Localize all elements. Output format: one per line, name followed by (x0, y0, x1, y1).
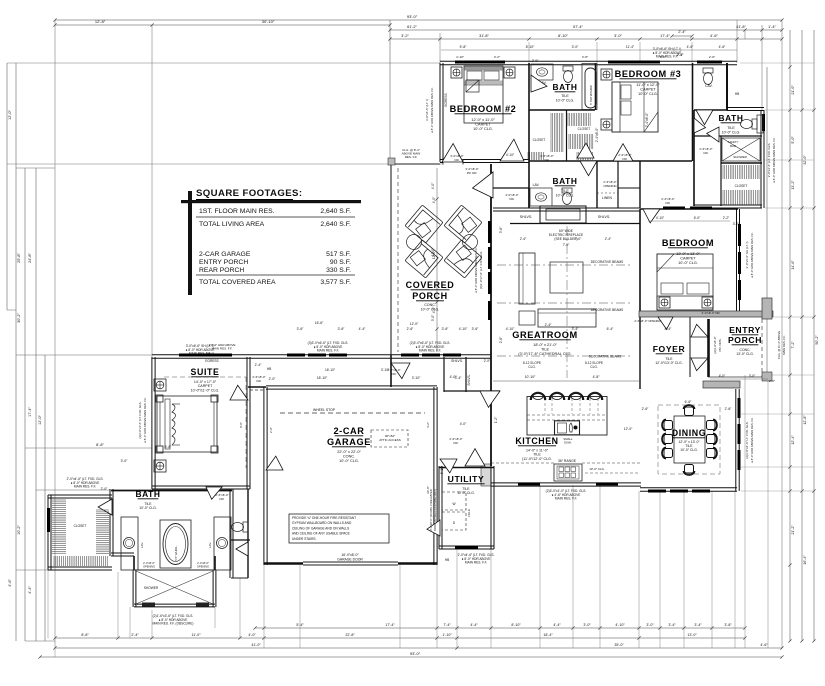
svg-text:30’-2″: 30’-2″ (17, 312, 21, 322)
door foyer double (691, 324, 708, 337)
kitchen south wall (491, 482, 641, 484)
svg-text:6’-4″: 6’-4″ (607, 327, 614, 331)
svg-text:330 S.F.: 330 S.F. (326, 267, 351, 274)
svg-text:CONC.: CONC. (343, 455, 355, 459)
svg-text:4’-0″: 4’-0″ (460, 422, 467, 426)
svg-text:13’-0″: 13’-0″ (687, 633, 697, 637)
right horizontal extensions (740, 62, 814, 64)
svg-text:FOLD: FOLD (467, 509, 471, 516)
door porch french (473, 172, 494, 198)
svg-text:1’-4″: 1’-4″ (768, 25, 776, 29)
svg-text:6’-0″: 6’-0″ (694, 216, 701, 220)
svg-text:EGRESS: EGRESS (444, 93, 448, 106)
svg-text:CLG. @ 11’-4″ ABOVE: CLG. @ 11’-4″ ABOVE (777, 331, 781, 359)
svg-text:2’-4″: 2’-4″ (605, 237, 612, 241)
svg-text:11’-4″: 11’-4″ (626, 45, 635, 49)
svg-text:6’-6″: 6’-6″ (685, 400, 692, 404)
svg-text:61’-2″: 61’-2″ (407, 25, 417, 29)
right bedroom speakers (659, 297, 670, 308)
svg-text:2’-6″: 2’-6″ (407, 327, 414, 331)
svg-text:MAIN RES. F.F.: MAIN RES. F.F. (419, 349, 441, 353)
door utility2 (427, 520, 440, 536)
utility washer dryer (442, 492, 466, 510)
svg-text:9’-0″: 9’-0″ (239, 422, 243, 428)
svg-text:10’-0″ CLG.: 10’-0″ CLG. (556, 193, 575, 197)
svg-text:2’-6″x8’-0″ OPENING: 2’-6″x8’-0″ OPENING (634, 319, 662, 323)
svg-text:36″ RANGE: 36″ RANGE (558, 459, 577, 463)
svg-text:50’-2″: 50’-2″ (815, 335, 819, 345)
bedroom wing exterior walls (440, 60, 737, 62)
svg-text:TOTAL LIVING AREA: TOTAL LIVING AREA (199, 221, 265, 228)
svg-text:90 S.F.: 90 S.F. (330, 259, 351, 266)
bath door top left (98, 499, 112, 515)
svg-text:12’-0″: 12’-0″ (410, 322, 419, 326)
svg-text:2’-4″x8’-0″: 2’-4″x8’-0″ (143, 561, 155, 565)
svg-text:HB: HB (735, 92, 739, 96)
bedroom east windows (738, 224, 741, 246)
svg-text:11’-0″: 11’-0″ (192, 633, 202, 637)
dimension frame bottom (255, 627, 745, 629)
svg-text:41’-8″: 41’-8″ (736, 25, 746, 29)
svg-text:10’-0″ CLG.: 10’-0″ CLG. (680, 448, 698, 452)
svg-text:4’-4″: 4’-4″ (28, 586, 32, 594)
svg-text:FOYER: FOYER (653, 344, 686, 354)
svg-text:GARAGE: GARAGE (327, 437, 371, 447)
svg-text:2’-2″: 2’-2″ (723, 216, 730, 220)
svg-text:MAIN RES. F.F.: MAIN RES. F.F. (74, 485, 96, 489)
right bath toilet (741, 119, 758, 129)
svg-text:10’-0″/11’-0″ CLG.: 10’-0″/11’-0″ CLG. (191, 388, 220, 392)
master closet walls (47, 495, 49, 570)
master bath tub (160, 520, 191, 568)
svg-text:4’-0″: 4’-0″ (719, 374, 726, 378)
wing closets hatch (551, 113, 563, 152)
svg-text:12’-0″: 12’-0″ (432, 250, 436, 259)
door rear hall (391, 363, 410, 379)
dining ceiling dash box (658, 405, 720, 474)
kitchen/greatroom west wall lower (490, 355, 492, 466)
door bath2 (580, 161, 597, 176)
kitchen island (527, 397, 607, 436)
svg-text:OPENING: OPENING (143, 565, 155, 569)
svg-text:17’-4″: 17’-4″ (660, 34, 670, 38)
svg-text:8’-8″: 8’-8″ (165, 445, 172, 449)
svg-text:3’-0″: 3’-0″ (583, 623, 591, 627)
shower bottom glass (142, 603, 155, 607)
svg-text:SHOWER: SHOWER (144, 586, 159, 590)
svg-text:UTILITY: UTILITY (448, 474, 485, 484)
svg-text:MAIN RES. F.F.: MAIN RES. F.F. (212, 347, 233, 351)
svg-text:11’-0″ x 12’-0″: 11’-0″ x 12’-0″ (636, 83, 660, 87)
svg-text:1ST. FLOOR MAIN RES.: 1ST. FLOOR MAIN RES. (199, 208, 275, 215)
entry walk dims (710, 378, 768, 380)
svg-text:3’-0″x6’-6″ (LT. I): 3’-0″x6’-6″ (LT. I) (425, 99, 429, 121)
svg-text:DECORATIVE BEAMS: DECORATIVE BEAMS (589, 355, 622, 359)
svg-text:DR.: DR. (392, 372, 397, 376)
svg-text:● 8’-0″ HDR ABOVE MAIN RES. F.: ● 8’-0″ HDR ABOVE MAIN RES. F.F. (750, 417, 754, 463)
svg-text:RES. F.F.: RES. F.F. (405, 155, 418, 159)
svg-text:3’-2″: 3’-2″ (494, 55, 501, 59)
door hall-bedroom (643, 209, 660, 223)
bedroom3 window (608, 61, 660, 64)
svg-text:MAIN RES. F.F.: MAIN RES. F.F. (555, 497, 577, 501)
svg-text:HB: HB (267, 367, 271, 371)
svg-text:10’-2″: 10’-2″ (17, 524, 21, 534)
bedroom window top (663, 207, 685, 210)
right bedroom bed (657, 254, 713, 310)
svg-text:SHOWER: SHOWER (733, 155, 747, 159)
svg-text:7’-2″: 7’-2″ (791, 341, 795, 349)
svg-text:4’-10″: 4’-10″ (615, 623, 625, 627)
porch edge lines (390, 164, 392, 355)
porch chairs (405, 205, 443, 243)
svg-text:30’-10″: 30’-10″ (262, 19, 275, 24)
svg-text:5’-0″: 5’-0″ (791, 136, 795, 144)
svg-text:DECORATIVE BEAMS: DECORATIVE BEAMS (591, 260, 624, 264)
svg-text:4’-4″: 4’-4″ (553, 623, 561, 627)
svg-text:AND CEILING OF ANY USABLE SPAC: AND CEILING OF ANY USABLE SPACE (292, 532, 350, 536)
svg-text:10’-10″: 10’-10″ (525, 375, 536, 379)
closet west window (47, 508, 50, 532)
door bedroom3 (613, 144, 633, 161)
svg-text:16’-10″: 16’-10″ (325, 368, 336, 372)
svg-text:LAV.: LAV. (208, 542, 212, 548)
svg-text:DR.: DR. (257, 379, 262, 383)
svg-text:DOOR W/ SELF-CLOSING UNIT): DOOR W/ SELF-CLOSING UNIT) (433, 489, 437, 531)
svg-text:3’-8″: 3’-8″ (582, 55, 589, 59)
extension lines top (54, 20, 56, 648)
svg-text:5’-4″: 5’-4″ (296, 623, 304, 627)
svg-text:WHEEL STOP: WHEEL STOP (313, 408, 336, 412)
svg-text:4’-6″: 4’-6″ (8, 579, 12, 587)
svg-text:● 8’-0″ HDR ABOVE MAIN RES. F.: ● 8’-0″ HDR ABOVE MAIN RES. F.F. (750, 232, 754, 278)
svg-text:MAIN RES. F.F.: MAIN RES. F.F. (782, 335, 786, 355)
svg-text:TILE: TILE (541, 348, 549, 352)
svg-text:10’-0″ CLG.: 10’-0″ CLG. (589, 467, 605, 471)
svg-text:31’-8″: 31’-8″ (479, 34, 489, 38)
svg-text:5’-8″: 5’-8″ (460, 45, 467, 49)
top bath toilet (563, 66, 573, 83)
svg-text:3’-6″: 3’-6″ (338, 327, 345, 331)
bedroom right interior dims (648, 220, 730, 222)
svg-text:3’-4″: 3’-4″ (572, 327, 579, 331)
left-bottom extensions (47, 570, 49, 638)
svg-text:12’-0″/13’-0″ CLG.: 12’-0″/13’-0″ CLG. (655, 361, 682, 365)
svg-text:3’-2″: 3’-2″ (401, 34, 409, 38)
door bath top (531, 75, 547, 92)
svg-text:2’-4″x8’-0″: 2’-4″x8’-0″ (595, 127, 599, 142)
svg-text:2’-4″x8’-0″: 2’-4″x8’-0″ (197, 561, 209, 565)
svg-text:3’-6″: 3’-6″ (499, 226, 503, 233)
svg-text:LAV.: LAV. (140, 542, 144, 548)
kitchen stools (531, 393, 545, 400)
wc walls (231, 539, 250, 541)
svg-text:4’-4″: 4’-4″ (359, 327, 366, 331)
svg-text:18’-4″: 18’-4″ (543, 633, 553, 637)
svg-text:4’-8″: 4’-8″ (593, 375, 601, 379)
svg-text:DR.: DR. (704, 151, 709, 155)
pantry walls (443, 357, 445, 392)
svg-text:SHLVS.: SHLVS. (598, 215, 611, 219)
svg-text:2’-0″: 2’-0″ (532, 59, 539, 63)
svg-text:8’-8″: 8’-8″ (96, 443, 104, 447)
wing interior walls (528, 63, 530, 208)
svg-text:3’-0″: 3’-0″ (614, 34, 622, 38)
svg-text:SHLVS.: SHLVS. (467, 374, 471, 385)
dining table (674, 416, 705, 463)
svg-text:4’-10″: 4’-10″ (656, 216, 665, 220)
svg-text:LINEN: LINEN (602, 196, 613, 200)
greatroom coffee table (550, 262, 583, 293)
svg-text:4’-10″: 4’-10″ (506, 327, 515, 331)
svg-text:BEDROOM #2: BEDROOM #2 (450, 104, 517, 114)
left horizontal extensions (7, 62, 440, 64)
top bath tub (585, 68, 596, 108)
suite walls (151, 357, 153, 489)
svg-text:13’-2″: 13’-2″ (791, 180, 795, 190)
svg-text:4’-6″: 4’-6″ (710, 34, 718, 38)
svg-text:SHLVS.: SHLVS. (520, 215, 533, 219)
svg-text:10’-0″ CLG.: 10’-0″ CLG. (638, 92, 658, 96)
svg-text:TOTAL COVERED AREA: TOTAL COVERED AREA (199, 279, 276, 286)
svg-text:3’-4″: 3’-4″ (694, 623, 702, 627)
svg-text:2’-6″: 2’-6″ (769, 379, 775, 383)
door wc (236, 542, 248, 556)
right bedroom walls (639, 209, 641, 317)
svg-text:12’-0″ CLG.: 12’-0″ CLG. (457, 491, 475, 495)
svg-text:10’-0″ CLG.: 10’-0″ CLG. (139, 506, 157, 510)
svg-text:MAIN RES. F.F. (OBSCURE): MAIN RES. F.F. (OBSCURE) (153, 622, 194, 626)
svg-text:4’-6″: 4’-6″ (760, 643, 768, 647)
svg-text:10’-0″ CLG.: 10’-0″ CLG. (678, 261, 698, 265)
svg-text:17’-4″: 17’-4″ (28, 406, 32, 416)
svg-text:GYPSUM WALLBOARD ON WALLS AND: GYPSUM WALLBOARD ON WALLS AND (292, 521, 352, 525)
right closet hatch (723, 165, 759, 179)
utility door (465, 449, 485, 466)
svg-text:2’-0″: 2’-0″ (101, 487, 108, 491)
svg-text:8’-10″: 8’-10″ (511, 623, 521, 627)
garage note box (289, 514, 389, 543)
svg-text:DINING: DINING (672, 428, 706, 438)
svg-text:4’-10″: 4’-10″ (459, 327, 468, 331)
door lav top right (696, 110, 713, 125)
svg-text:MAIN RES. F.F.: MAIN RES. F.F. (465, 561, 487, 565)
svg-text:3’-4″: 3’-4″ (668, 623, 676, 627)
hall walls below wing (529, 160, 692, 162)
svg-text:BATH: BATH (552, 176, 577, 186)
svg-text:CLG.: CLG. (528, 365, 536, 369)
svg-text:DR.: DR. (454, 441, 459, 445)
decorative beam lines (497, 264, 632, 266)
svg-text:CLOSET: CLOSET (533, 138, 546, 142)
svg-text:CLOSET: CLOSET (578, 127, 591, 131)
svg-text:CEILING OF GARAGE AND ON WALLS: CEILING OF GARAGE AND ON WALLS (292, 526, 349, 530)
svg-text:5.5’ WHIRL.: 5.5’ WHIRL. (174, 545, 178, 561)
svg-text:3,577 S.F.: 3,577 S.F. (320, 279, 351, 286)
kitchen sink (555, 421, 580, 435)
svg-text:2’-6″: 2’-6″ (709, 55, 716, 59)
svg-text:8’-4″: 8’-4″ (665, 327, 672, 331)
svg-text:(2)3’-0″x8’-0″: (2)3’-0″x8’-0″ (713, 336, 717, 353)
svg-text:CLOSET: CLOSET (735, 184, 748, 188)
svg-text:CARPET: CARPET (640, 88, 656, 92)
svg-text:PR. DRS.: PR. DRS. (718, 338, 722, 351)
fireplace centerline (566, 226, 568, 378)
door suite (230, 385, 248, 400)
greatroom sofa L (519, 253, 535, 304)
svg-text:EGRESS: EGRESS (205, 359, 218, 363)
svg-text:16’-4″: 16’-4″ (803, 555, 807, 565)
svg-text:OPENING: OPENING (603, 184, 617, 188)
svg-text:UNDER STAIRS.: UNDER STAIRS. (292, 537, 316, 541)
svg-text:2’-0″x4’-6″ (LT. FXD. GLS.: 2’-0″x4’-6″ (LT. FXD. GLS. (767, 143, 771, 178)
svg-text:41’-0″: 41’-0″ (251, 643, 261, 647)
svg-text:BEDROOM: BEDROOM (662, 238, 714, 248)
garage attic access (371, 430, 408, 447)
svg-text:2’-6″: 2’-6″ (725, 407, 732, 411)
svg-text:10’-0″ CLG.: 10’-0″ CLG. (556, 98, 575, 102)
svg-text:2-CAR GARAGE: 2-CAR GARAGE (199, 251, 251, 258)
svg-text:12’-0″: 12’-0″ (38, 414, 42, 424)
wing top interior dims (441, 49, 737, 51)
svg-text:7’-4″: 7’-4″ (443, 623, 451, 627)
svg-text:4’-2″: 4’-2″ (426, 422, 430, 428)
svg-text:LAV.: LAV. (533, 183, 540, 187)
svg-text:16’-6″: 16’-6″ (315, 321, 324, 325)
svg-text:3’-0″: 3’-0″ (572, 45, 579, 49)
suite bed (157, 396, 217, 452)
svg-text:DR.: DR. (510, 197, 515, 201)
svg-text:DR.: DR. (455, 158, 460, 162)
svg-text:2,640 S.F.: 2,640 S.F. (320, 208, 351, 215)
svg-text:3’-6″: 3’-6″ (442, 327, 449, 331)
svg-text:2’-6″: 2’-6″ (499, 336, 503, 343)
svg-text:TILE: TILE (727, 126, 735, 130)
svg-text:25’-8″: 25’-8″ (17, 252, 21, 262)
bedroom2 bed (465, 67, 503, 71)
door suite-bath (206, 487, 222, 499)
svg-text:BEDROOM #3: BEDROOM #3 (615, 69, 682, 79)
kitchen dim line (493, 380, 640, 382)
svg-text:8’-10″: 8’-10″ (558, 34, 568, 38)
svg-text:(11’-0″/12’-0″ CLG.: (11’-0″/12’-0″ CLG. (522, 457, 552, 461)
right bath shower (722, 138, 760, 161)
top lav toilet (703, 68, 713, 85)
svg-text:CARPET: CARPET (475, 123, 491, 127)
svg-text:BATH: BATH (718, 113, 743, 123)
svg-text:DISH.: DISH. (564, 441, 572, 445)
svg-text:LAV.: LAV. (705, 84, 712, 88)
door foyer-bedroom (658, 317, 673, 329)
entry porch walls (762, 298, 772, 319)
svg-text:BATH: BATH (135, 489, 160, 499)
svg-text:16’-0″x8’-0″: 16’-0″x8’-0″ (341, 553, 359, 557)
svg-text:2’-4″x8’-0″: 2’-4″x8’-0″ (645, 112, 649, 127)
svg-text:12’-4″: 12’-4″ (791, 435, 795, 445)
svg-text:12’-0″: 12’-0″ (8, 109, 12, 119)
svg-text:3’-10″: 3’-10″ (381, 368, 390, 372)
svg-text:4’-0″: 4’-0″ (431, 182, 435, 189)
dining chairs (662, 420, 673, 431)
svg-text:12’-8″: 12’-8″ (803, 415, 807, 425)
top bath lav (531, 64, 553, 80)
wc toilet (232, 522, 249, 532)
svg-text:4’-0″: 4’-0″ (248, 633, 256, 637)
master closet hatch (52, 500, 66, 553)
svg-text:3’-6″: 3’-6″ (472, 327, 479, 331)
bedroom2 nightstands (451, 67, 462, 78)
svg-text:2’-0″: 2’-0″ (269, 427, 273, 433)
door right bath (694, 118, 706, 133)
svg-text:57’-4″: 57’-4″ (573, 25, 583, 29)
svg-text:3’-0″: 3’-0″ (749, 374, 756, 378)
svg-text:KITCHEN: KITCHEN (515, 436, 558, 446)
svg-text:DR.: DR. (666, 201, 671, 205)
svg-text:3’-6″: 3’-6″ (297, 327, 304, 331)
svg-text:(2)2’-0″x4’-6″ (LT. FXD. GLS.: (2)2’-0″x4’-6″ (LT. FXD. GLS. (138, 401, 142, 438)
right bath east window (762, 114, 765, 131)
svg-text:6’-0″: 6’-0″ (660, 55, 667, 59)
svg-text:18’-10″: 18’-10″ (317, 376, 328, 380)
svg-text:(2)3’-0″x4’-6″ LT. FXD. GLS.: (2)3’-0″x4’-6″ LT. FXD. GLS. (745, 421, 749, 458)
square footages table (188, 191, 192, 295)
suite speakers (154, 379, 166, 391)
svg-text:2,640 S.F.: 2,640 S.F. (320, 221, 351, 228)
svg-text:ENTRY: ENTRY (729, 325, 761, 335)
svg-text:517 S.F.: 517 S.F. (326, 251, 351, 258)
bath2 toilet (562, 188, 572, 205)
svg-text:2’-6″: 2’-6″ (642, 407, 649, 411)
svg-text:4’-0″: 4’-0″ (432, 196, 436, 203)
svg-text:2’-4″: 2’-4″ (677, 53, 684, 57)
svg-text:14’-0″: 14’-0″ (206, 352, 215, 356)
svg-text:PORCH: PORCH (412, 291, 448, 301)
porch tables (407, 235, 422, 250)
svg-text:10’-0″ CLG.: 10’-0″ CLG. (722, 130, 741, 134)
svg-text:10’-0″ CLG.: 10’-0″ CLG. (473, 127, 493, 131)
svg-text:12’-0″ x 13’-0″: 12’-0″ x 13’-0″ (676, 252, 700, 256)
svg-text:4’-0″: 4’-0″ (432, 306, 436, 313)
svg-text:(4)3’-0″x7’-0″ (LT. FXD. GLS.: (4)3’-0″x7’-0″ (LT. FXD. GLS. (479, 251, 483, 289)
svg-text:21’-2″: 21’-2″ (791, 525, 795, 535)
svg-text:2’-4″: 2’-4″ (131, 633, 139, 637)
svg-text:3’-8″: 3’-8″ (724, 623, 732, 627)
svg-text:SUITE: SUITE (191, 367, 220, 377)
svg-text:3’-2″: 3’-2″ (733, 222, 740, 226)
kitchen range (554, 464, 582, 481)
svg-text:GREATROOM: GREATROOM (512, 330, 577, 340)
svg-text:21’-0″: 21’-0″ (791, 85, 795, 95)
svg-text:2’-4″: 2’-4″ (255, 363, 262, 367)
svg-text:W: W (452, 502, 455, 506)
svg-text:13’-0″ CLG.: 13’-0″ CLG. (736, 352, 754, 356)
svg-text:OPENING: OPENING (197, 565, 209, 569)
svg-text:● 8’-4″ HDR ABOVE MAIN RES. F.: ● 8’-4″ HDR ABOVE MAIN RES. F.F. (474, 247, 478, 293)
svg-text:CONC.: CONC. (424, 303, 436, 307)
svg-text:12’-8″: 12’-8″ (95, 19, 106, 24)
svg-text:10’-0″ CLG.: 10’-0″ CLG. (339, 459, 359, 463)
dimension line top-left (55, 24, 390, 26)
svg-text:DECORATIVE BEAMS: DECORATIVE BEAMS (591, 308, 624, 312)
bottom extension lines (263, 565, 265, 648)
svg-text:CLG.: CLG. (590, 365, 598, 369)
rear wall with windows (152, 354, 491, 356)
rear hall walls (390, 355, 392, 387)
porch dim vertical (436, 168, 438, 352)
door bedroom3 closet (577, 143, 594, 158)
svg-text:1’-2″: 1’-2″ (494, 416, 498, 423)
svg-text:3’-4″: 3’-4″ (455, 376, 462, 380)
